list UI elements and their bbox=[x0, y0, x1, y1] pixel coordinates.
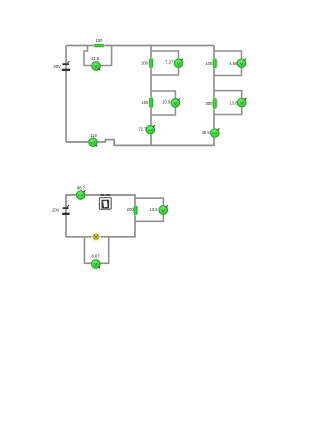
resistor R6 200 (bottom circuit right side) bbox=[133, 205, 139, 216]
voltmeter V3 (10.9) bbox=[170, 98, 180, 108]
wire: voltmeter V6 parallel loop bbox=[135, 198, 163, 221]
wire: top circuit left side vertical bbox=[65, 46, 67, 143]
wire: right branch vertical bbox=[213, 46, 215, 146]
label 20V bbox=[52, 208, 60, 213]
label A2 72.7 bbox=[138, 127, 147, 132]
label V6 13.3 bbox=[149, 207, 158, 212]
svg-text:100: 100 bbox=[141, 61, 149, 66]
label V5 13.6 bbox=[230, 100, 239, 105]
label R3 150 bbox=[141, 100, 149, 105]
svg-text:13.3: 13.3 bbox=[149, 207, 158, 212]
switch S1 bbox=[99, 194, 111, 209]
voltmeter V7 (8.87) bbox=[91, 259, 101, 269]
voltmeter V1 (-11.8) bbox=[91, 61, 101, 71]
resistor R2 100 (middle upper) bbox=[148, 57, 154, 68]
svg-text:30V: 30V bbox=[53, 64, 61, 69]
svg-text:88.7: 88.7 bbox=[77, 186, 86, 191]
resistor R4 100 (right upper) bbox=[212, 58, 218, 69]
label A4 88.7 bbox=[77, 186, 86, 191]
svg-text:300: 300 bbox=[205, 101, 213, 106]
wire: voltmeter V5 parallel loop bbox=[214, 91, 242, 115]
svg-text:20V: 20V bbox=[52, 208, 60, 213]
label V7 8.87 bbox=[91, 254, 100, 259]
svg-text:7.27: 7.27 bbox=[165, 60, 174, 65]
ammeter A3 (45.5) bbox=[210, 128, 220, 138]
wire: voltmeter V3 parallel loop bbox=[151, 91, 175, 115]
wire: voltmeter V7 parallel loop (around bulb) bbox=[84, 237, 108, 263]
wire: top circuit top horizontal bbox=[66, 45, 214, 47]
svg-text:100: 100 bbox=[205, 61, 213, 66]
resistor R3 150 (middle lower) bbox=[148, 97, 154, 109]
ammeter A4 (88.7) bbox=[76, 190, 86, 200]
label R4 100 bbox=[205, 61, 213, 66]
svg-text:10.9: 10.9 bbox=[162, 100, 171, 105]
svg-text:mA: mA bbox=[212, 131, 218, 135]
battery BT1 30V bbox=[62, 61, 70, 71]
wire: voltmeter V4 parallel loop bbox=[214, 51, 242, 76]
label R1 100 bbox=[96, 38, 104, 43]
wire: bottom circuit rectangle bbox=[66, 195, 135, 237]
wire: voltmeter V2 parallel loop bbox=[151, 51, 179, 75]
svg-text:mA: mA bbox=[91, 140, 97, 144]
voltmeter V5 (13.6) bbox=[237, 98, 247, 108]
ammeter A2 (72.7) bbox=[145, 125, 155, 135]
svg-text:100: 100 bbox=[96, 38, 104, 43]
svg-text:45.5: 45.5 bbox=[202, 130, 211, 135]
ammeter A1 (118) bbox=[88, 137, 98, 147]
svg-text:mA: mA bbox=[78, 193, 84, 197]
svg-text:150: 150 bbox=[141, 100, 149, 105]
resistor R1 100 (horizontal, top) bbox=[93, 43, 105, 48]
svg-text:4.56: 4.56 bbox=[229, 61, 238, 66]
label A1 118 bbox=[90, 133, 97, 138]
label R6 200 bbox=[127, 207, 135, 212]
svg-text:200: 200 bbox=[127, 207, 135, 212]
battery BT2 20V bbox=[62, 205, 69, 215]
wire: middle branch vertical bbox=[150, 46, 152, 146]
svg-text:8.87: 8.87 bbox=[91, 254, 100, 259]
voltmeter V4 (4.56) bbox=[236, 58, 246, 68]
svg-text:-11.8: -11.8 bbox=[90, 56, 100, 61]
svg-text:13.6: 13.6 bbox=[230, 100, 239, 105]
label V1 -11.8 bbox=[90, 56, 100, 61]
label V3 10.9 bbox=[162, 100, 171, 105]
svg-text:72.7: 72.7 bbox=[138, 127, 147, 132]
label A3 45.5 bbox=[202, 130, 211, 135]
label V2 7.27 bbox=[165, 60, 174, 65]
svg-text:mA: mA bbox=[148, 128, 154, 132]
label R2 100 bbox=[141, 61, 149, 66]
wire: voltmeter V1 parallel loop bbox=[84, 46, 112, 66]
resistor R5 300 (right lower) bbox=[212, 98, 218, 110]
label R5 300 bbox=[205, 101, 213, 106]
label V4 4.56 bbox=[229, 61, 238, 66]
wire: top circuit bottom with jog bbox=[66, 140, 215, 146]
voltmeter V6 (13.3) bbox=[158, 205, 168, 215]
lamp L1 (bulb on bottom wire) bbox=[91, 232, 100, 241]
label 30V bbox=[53, 64, 61, 69]
voltmeter V2 (7.27) bbox=[173, 58, 183, 68]
svg-text:118: 118 bbox=[90, 133, 97, 138]
